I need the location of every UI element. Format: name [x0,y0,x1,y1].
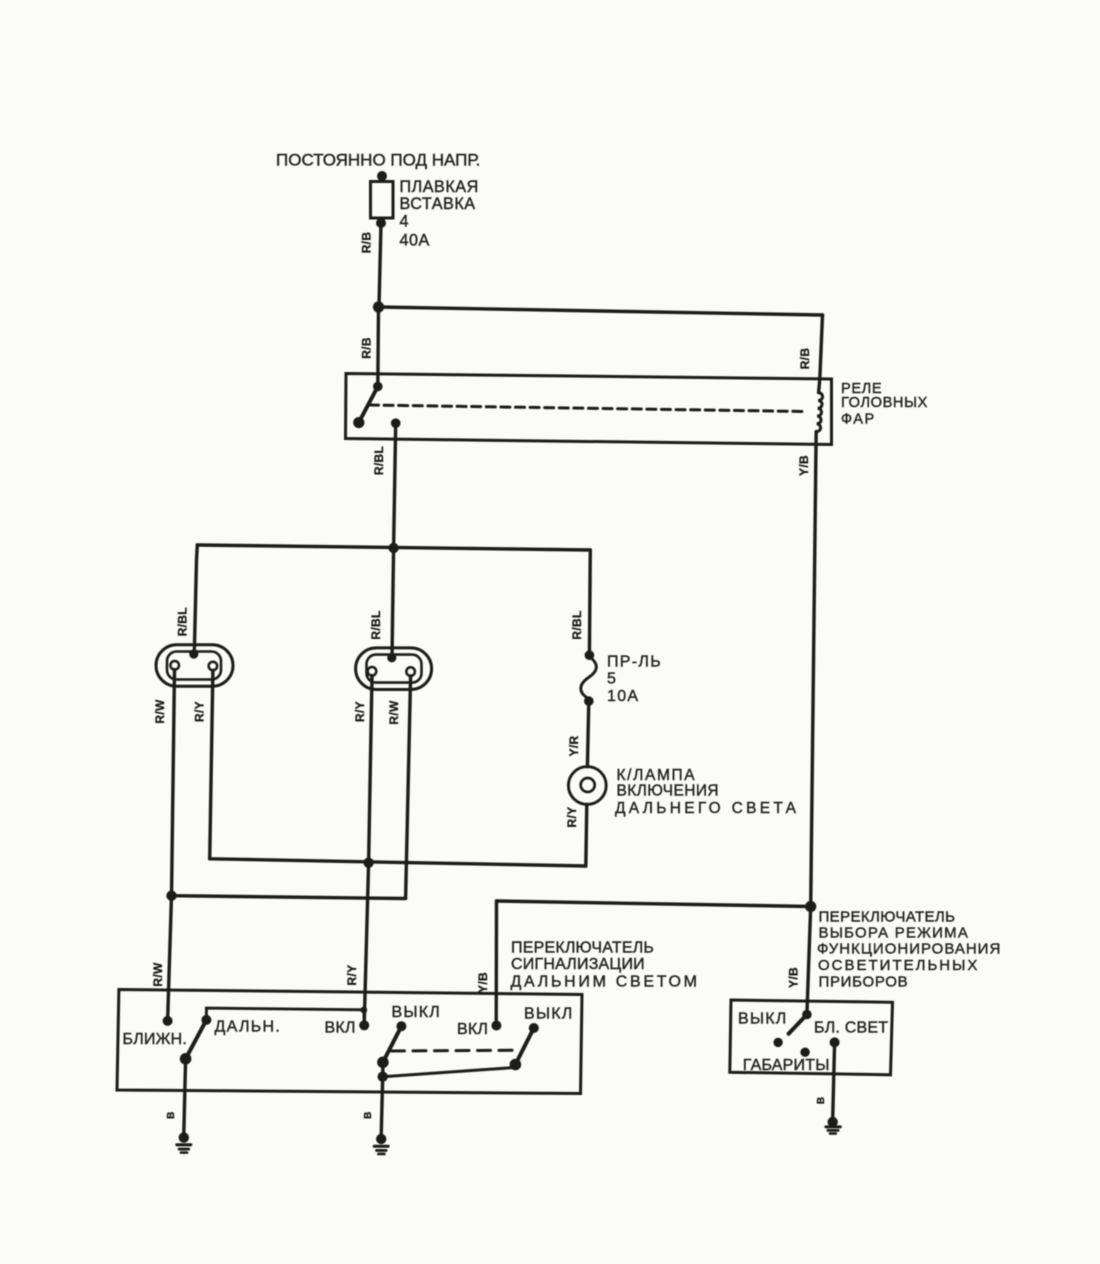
junction node R/Y bus [363,858,373,868]
junction node Y/B [805,901,816,912]
wire R/W headlamp1 left pin down [172,670,175,896]
svg-text:R/BL: R/BL [369,610,383,639]
dimmer/flasher switch box [117,990,582,1094]
junction node distribution [388,543,398,553]
svg-text:ВЫКЛ: ВЫКЛ [392,1004,441,1021]
svg-text:ПЛАВКАЯ: ПЛАВКАЯ [400,178,479,196]
svg-text:4: 4 [400,213,410,231]
wire R/Y headlamp1 right pin down [210,670,213,859]
wire R/B right down to relay coil [820,315,823,379]
wire top horizontal R/B to relay coil side [379,307,823,315]
wire B to ground 3 [833,1042,835,1118]
headlamp 2 inner connector [367,655,422,683]
label ПЕРЕКЛЮЧАТЕЛЬ СИГНАЛИЗАЦИИ ДАЛЬНИМ СВЕТОМ [511,940,700,991]
svg-text:Y/R: Y/R [567,736,581,757]
svg-text:БЛИЖН.: БЛИЖН. [123,1031,187,1048]
headlamp 1 pin right [209,662,218,671]
contact ВКЛ (flasher) [359,1020,369,1030]
svg-text:R/Y: R/Y [353,701,367,722]
fuse 5 (ПР-ЛЬ 5 10А) element [581,657,597,699]
svg-text:ФАР: ФАР [841,412,876,428]
label ПЛАВКАЯ ВСТАВКА 4 40А [400,178,479,249]
mode selector switch box [730,1000,893,1075]
junction node top [373,301,384,312]
headlamp 1 supply node [189,649,198,658]
wire Y/R fuse to indicator lamp [587,701,588,767]
dimmer switch arm [186,1020,207,1059]
wire R/Y indicator lamp down to bus [586,804,587,866]
svg-text:ОСВЕТИТЕЛЬНЫХ: ОСВЕТИТЕЛЬНЫХ [818,957,979,974]
indicator lamp К/ЛАМПА ВКЛЮЧЕНИЯ ДАЛЬНЕГО СВЕТА [568,767,606,805]
wire B to ground 2 [381,1077,383,1136]
wire ДАЛЬН to ВКЛ link [206,1008,364,1024]
svg-text:БЛ. СВЕТ: БЛ. СВЕТ [814,1019,888,1036]
contact БЛ. СВЕТ [830,1037,840,1047]
svg-text:R/W: R/W [151,962,165,987]
wire Y/B relay coil down to junction [811,432,817,907]
contact ДАЛЬН. [201,1015,211,1025]
wire Y/B down to mode switch [807,907,811,1015]
contact БЛИЖН. [163,1016,173,1026]
wire B to ground 1 [184,1059,186,1134]
mode switch common contact [802,1010,812,1020]
wire R/Y horizontal bus [210,859,586,866]
wire R/W horizontal link [172,896,406,899]
wire R/BL right branch down to fuse 5 [588,550,592,655]
svg-text:ВСТАВКА: ВСТАВКА [400,195,476,213]
contact ВЫКЛ (second) [529,1023,539,1033]
relay switch arm end contact [353,417,364,428]
wire distribution horizontal R/BL [197,545,590,550]
headlamp 1 outer shell [156,645,233,687]
wire Y/B down to flasher switch [495,901,499,1025]
svg-text:R/Y: R/Y [565,807,579,828]
label ПЕРЕКЛЮЧАТЕЛЬ ВЫБОРА РЕЖИМА ФУНКЦИОНИРОВАНИЯ ОСВЕТИТЕЛЬНЫХ ПРИБОРОВ [817,909,1001,991]
wire R/W down to dimmer switch [168,896,172,1021]
wire second pivot to ground junction [383,1068,515,1077]
junction node ground wire 2 [378,1072,388,1082]
svg-text:R/W: R/W [387,700,401,725]
svg-text:ПР-ЛЬ: ПР-ЛЬ [607,653,662,670]
svg-text:R/BL: R/BL [570,610,584,639]
relay output contact (R/BL) [391,418,401,428]
svg-text:Y/B: Y/B [797,455,811,476]
relay switch common contact [373,382,383,392]
svg-text:B: B [166,1112,177,1119]
contact ВКЛ (second) [491,1021,501,1031]
fuse 5 bottom terminal [584,696,594,706]
ground 1 [175,1132,192,1153]
wire Y/B horizontal from mode switch junction [497,901,811,907]
wire R/B junction to relay contact [376,307,380,387]
relay coil [816,393,822,432]
wire relay coil top stub [819,379,820,393]
ground 3 [824,1117,841,1135]
svg-text:ВКЛЮЧЕНИЯ: ВКЛЮЧЕНИЯ [617,783,719,800]
svg-text:ПРИБОРОВ: ПРИБОРОВ [819,973,909,990]
mode switch arm [789,1015,807,1034]
svg-text:40А: 40А [400,231,430,249]
wire R/Y headlamp2 left pin down [369,676,372,863]
svg-text:R/BL: R/BL [372,446,386,475]
svg-text:ВЫКЛ: ВЫКЛ [738,1010,787,1027]
fusible link 4 (ПЛАВКАЯ ВСТАВКА 4 40А) body [371,182,394,219]
svg-text:R/Y: R/Y [345,965,359,986]
headlamp 1 pin left [170,661,179,670]
headlamp 2 pin right [406,667,415,676]
svg-text:ДАЛЬНИМ СВЕТОМ: ДАЛЬНИМ СВЕТОМ [511,973,700,990]
contact ГАБАРИТЫ arm side [773,1038,782,1047]
label РЕЛЕ ГОЛОВНЫХ ФАР [841,381,928,428]
wire R/BL middle branch down to headlamp 2 [392,548,394,658]
relay switch arm [359,387,378,423]
svg-text:ДАЛЬНЕГО СВЕТА: ДАЛЬНЕГО СВЕТА [615,800,799,817]
second switch arm [515,1028,533,1065]
fusible link 4 bottom terminal [376,218,386,228]
fusible link 4 top terminal [377,171,387,181]
contact ВЫКЛ (flasher) [396,1021,406,1031]
svg-text:Y/B: Y/B [476,972,490,993]
svg-text:ДАЛЬН.: ДАЛЬН. [215,1018,282,1035]
svg-text:5: 5 [607,671,617,688]
svg-text:ГАБАРИТЫ: ГАБАРИТЫ [743,1057,830,1074]
wire R/BL left branch down to headlamp 1 [194,545,197,654]
svg-text:R/B: R/B [360,337,374,359]
relay box РЕЛЕ ГОЛОВНЫХ ФАР [346,374,832,445]
svg-text:ВКЛ: ВКЛ [325,1019,356,1036]
svg-text:R/W: R/W [153,699,167,724]
svg-text:ВЫКЛ: ВЫКЛ [524,1005,573,1022]
svg-text:ПОСТОЯННО ПОД НАПР.: ПОСТОЯННО ПОД НАПР. [276,151,480,170]
contact middle [800,1048,809,1057]
dimmer switch arm pivot [180,1053,192,1065]
headlamp 1 inner connector [167,652,221,680]
svg-text:ВЫБОРА РЕЖИМА: ВЫБОРА РЕЖИМА [819,925,970,942]
relay actuation dashed link [370,405,807,412]
svg-text:ПЕРЕКЛЮЧАТЕЛЬ: ПЕРЕКЛЮЧАТЕЛЬ [511,940,654,957]
second switch arm pivot [510,1059,522,1071]
junction node R/W [166,891,176,901]
label К/ЛАМПА ВКЛЮЧЕНИЯ ДАЛЬНЕГО СВЕТА [615,767,799,817]
indicator lamp filament [581,778,595,792]
svg-text:ВКЛ: ВКЛ [457,1021,488,1038]
svg-text:R/B: R/B [360,232,374,254]
mechanical dashed link [392,1049,514,1053]
headlamp 2 supply node [387,653,396,662]
svg-text:R/B: R/B [798,348,812,370]
wire R/BL relay output down to distribution junction [394,423,396,547]
wire R/B from fuse to junction [379,223,381,307]
wire pivot to junction [381,1062,385,1076]
svg-text:ГОЛОВНЫХ: ГОЛОВНЫХ [841,395,928,411]
svg-text:СИГНАЛИЗАЦИИ: СИГНАЛИЗАЦИИ [511,956,645,973]
node link corner [360,1007,367,1014]
svg-text:ФУНКЦИОНИРОВАНИЯ: ФУНКЦИОНИРОВАНИЯ [817,941,1001,958]
svg-text:R/BL: R/BL [176,607,190,636]
svg-text:R/Y: R/Y [192,701,206,722]
label ПР-ЛЬ 5 10А [607,653,662,705]
flasher switch arm pivot [377,1057,389,1069]
wire R/Y bus down to dimmer switch [364,863,368,1025]
fuse 5 top terminal [585,650,595,660]
svg-text:ПЕРЕКЛЮЧАТЕЛЬ: ПЕРЕКЛЮЧАТЕЛЬ [819,909,956,926]
flasher switch arm [383,1026,402,1062]
headlamp 2 outer shell [356,648,432,690]
svg-text:B: B [363,1112,374,1119]
svg-text:B: B [816,1097,827,1104]
headlamp 2 pin left [368,667,377,676]
svg-text:К/ЛАМПА: К/ЛАМПА [617,767,697,784]
ground 2 [373,1134,390,1155]
svg-text:Y/B: Y/B [786,967,800,988]
wire R/W headlamp2 right pin down [406,676,411,898]
svg-text:10А: 10А [607,688,639,705]
